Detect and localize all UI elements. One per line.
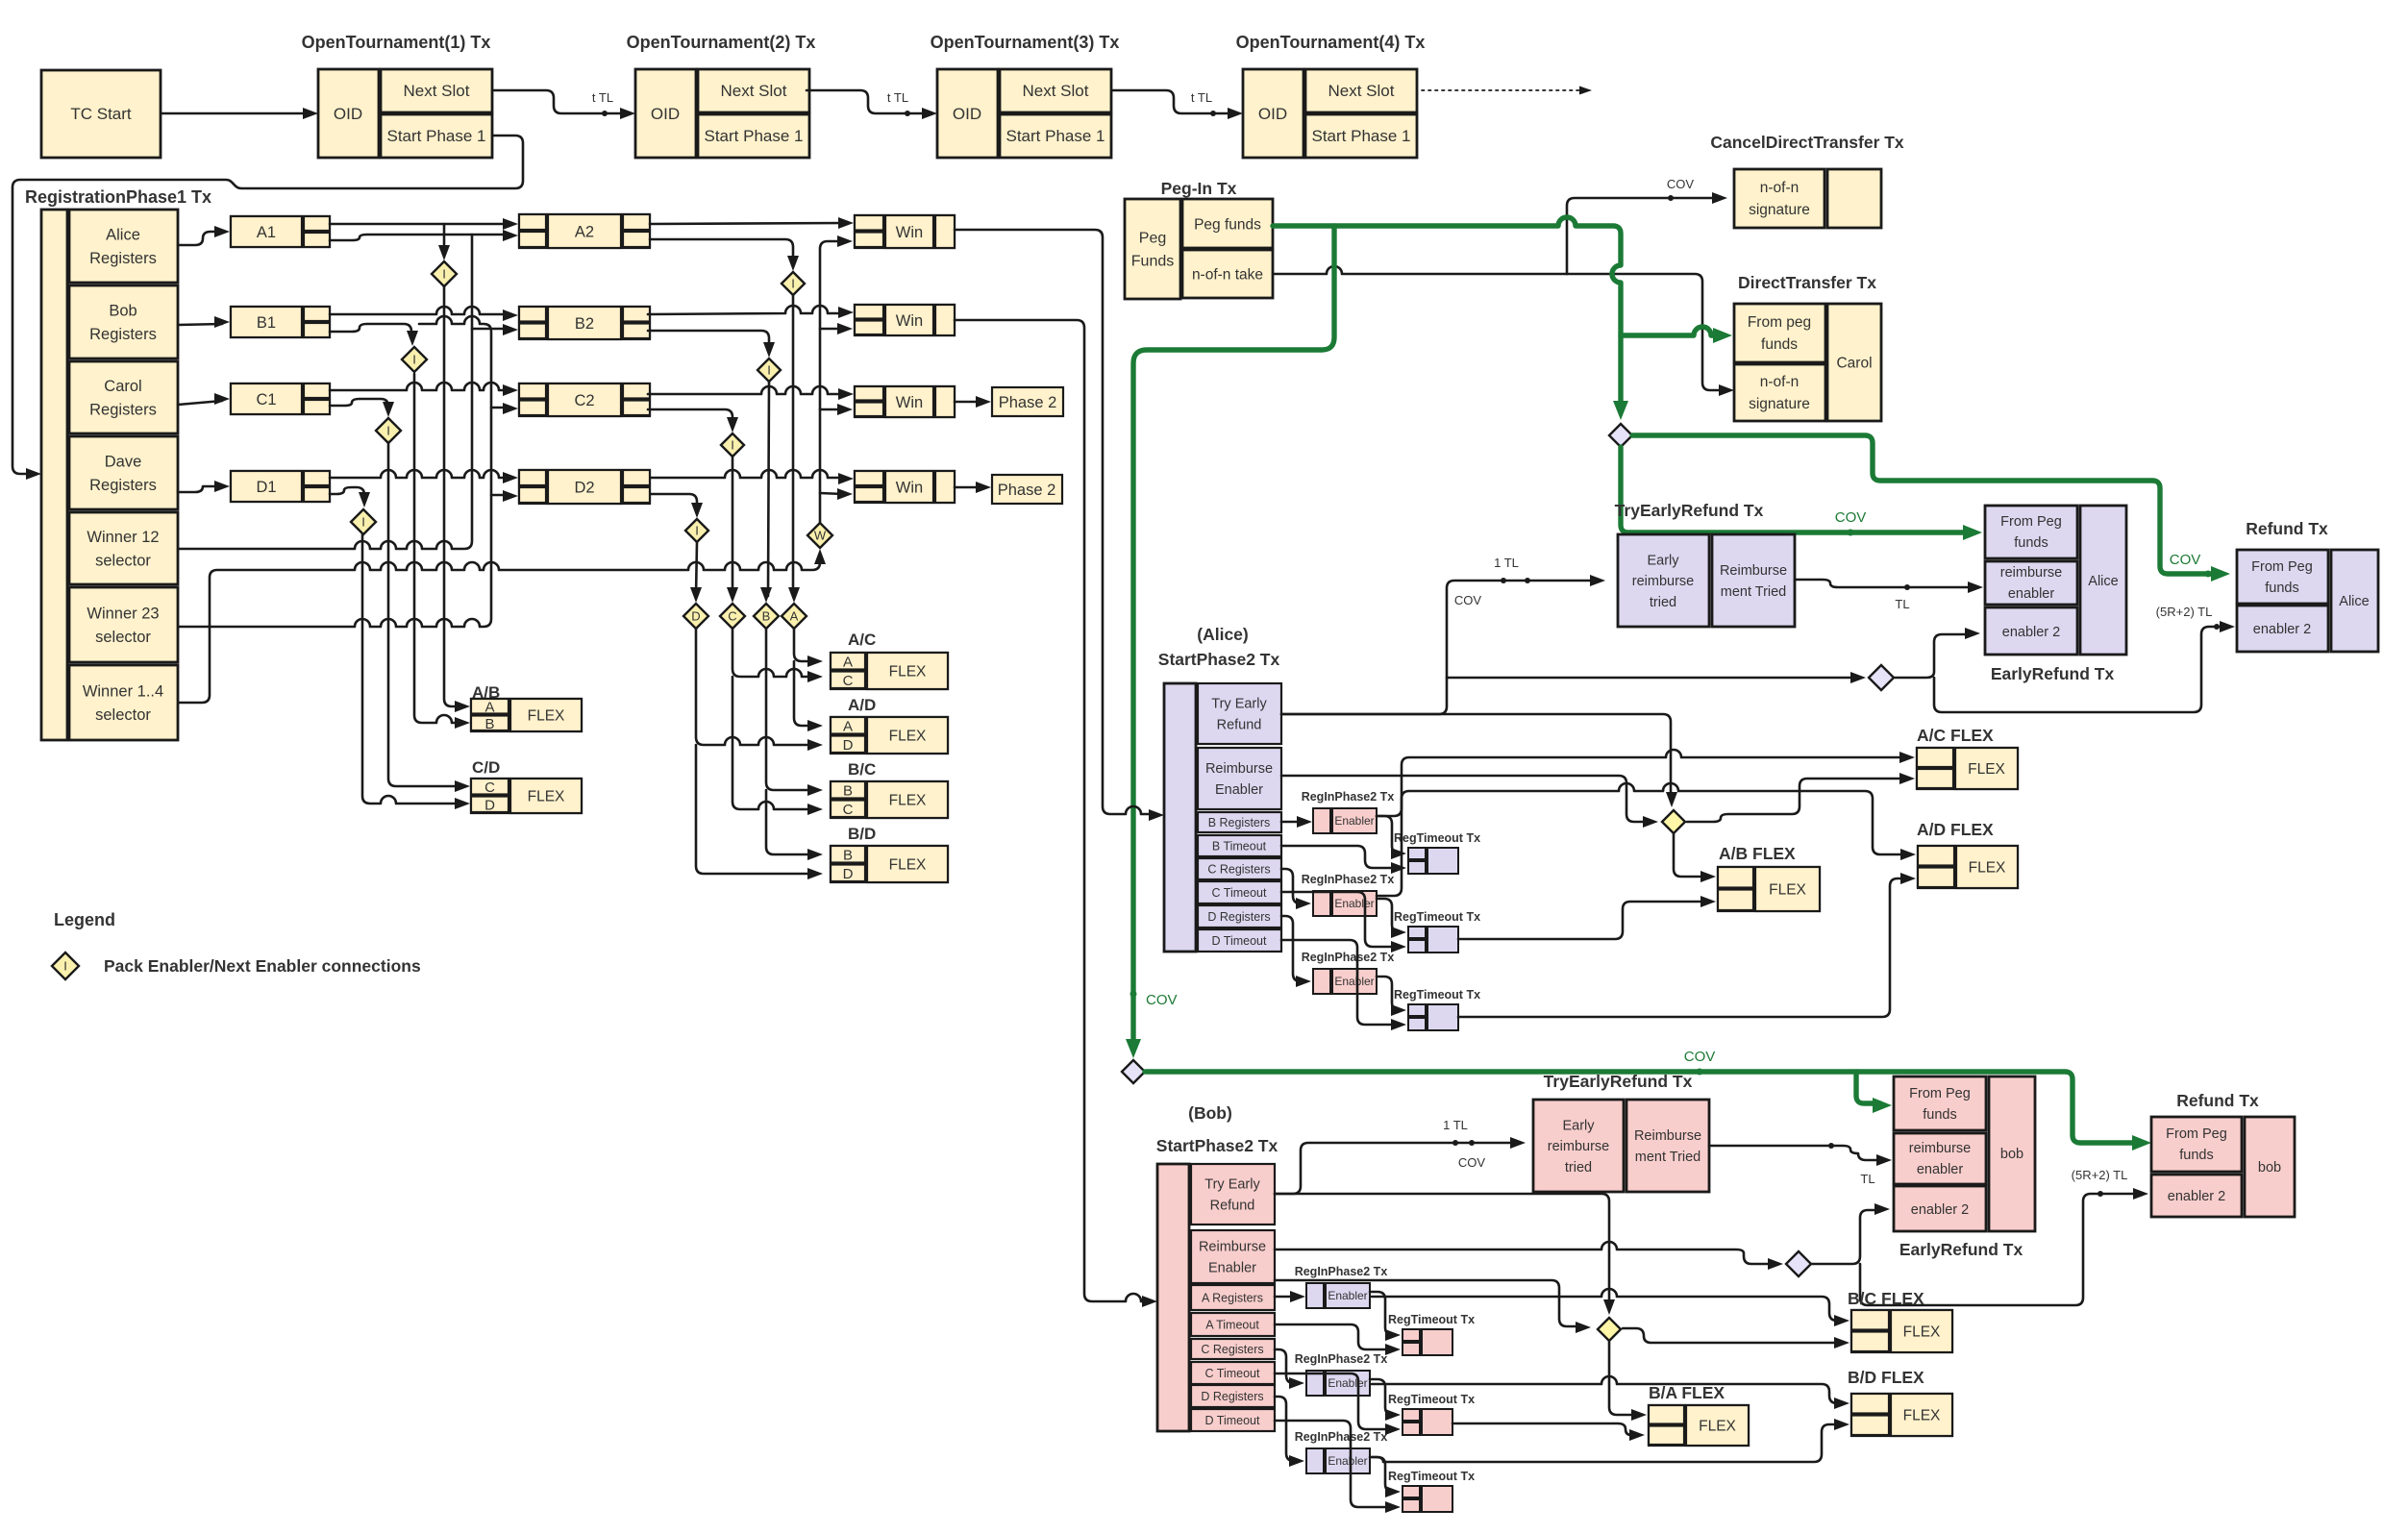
svg-text:A Timeout: A Timeout xyxy=(1205,1318,1259,1331)
box RegInPhase2 Tx xyxy=(1306,1283,1324,1308)
svg-text:bob: bob xyxy=(2258,1160,2281,1175)
svg-text:W: W xyxy=(814,529,827,543)
svg-text:Enabler: Enabler xyxy=(1328,1376,1367,1390)
box Alice StartPhase2 input column xyxy=(1164,683,1196,952)
svg-text:t TL: t TL xyxy=(887,90,908,105)
wire B2 out bottom to I_B2 xyxy=(648,331,769,350)
svg-text:RegTimeout Tx: RegTimeout Tx xyxy=(1394,988,1480,1002)
svg-text:A1: A1 xyxy=(257,224,276,241)
svg-text:Start Phase 1: Start Phase 1 xyxy=(386,127,485,145)
wire green Bob diamond to Refund Tx xyxy=(1145,1072,2140,1143)
wire Alice Try Early Refund to TryEarlyRefund Tx xyxy=(1281,581,1594,714)
box Phase 2 (D) xyxy=(992,475,1062,504)
svg-text:D: D xyxy=(843,737,854,754)
box RegTimeout Tx xyxy=(1403,1486,1420,1497)
svg-text:Winner 12: Winner 12 xyxy=(87,529,159,546)
diamond I_D2 xyxy=(685,519,708,542)
box Peg-In Peg funds output xyxy=(1182,199,1273,248)
wire RegTimeout 2 to A/B FLEX bottom xyxy=(1458,902,1706,939)
svg-text:A: A xyxy=(843,655,853,671)
wire Alice Registers to A1 xyxy=(178,232,222,245)
svg-text:funds: funds xyxy=(2265,581,2298,596)
svg-text:TL: TL xyxy=(1895,597,1909,611)
svg-text:signature: signature xyxy=(1749,396,1810,412)
svg-text:Win: Win xyxy=(896,224,923,241)
box C/D FLEX xyxy=(471,779,582,813)
box Bob Refund From Peg funds xyxy=(2151,1117,2242,1172)
wire I_A2 to diamond A xyxy=(792,295,795,596)
svg-text:OID: OID xyxy=(651,105,680,123)
box Alice StartPhase2 B Registers xyxy=(1198,812,1281,832)
svg-text:EarlyRefund Tx: EarlyRefund Tx xyxy=(1991,664,2115,683)
svg-text:D Timeout: D Timeout xyxy=(1212,934,1267,948)
svg-text:Enabler: Enabler xyxy=(1334,975,1374,988)
wire D Timeout to RegTimeout 3 xyxy=(1281,940,1399,1025)
svg-text:n-of-n: n-of-n xyxy=(1760,374,1800,390)
svg-text:(Alice): (Alice) xyxy=(1197,625,1248,644)
wire Reimbursement Tried to reimburse enabler TL xyxy=(1795,580,1973,587)
box Phase 2 (C) xyxy=(992,387,1063,416)
box Bob StartPhase2 D Timeout xyxy=(1191,1409,1275,1431)
svg-text:tried: tried xyxy=(1565,1160,1592,1175)
box Alice EarlyRefund From Peg funds xyxy=(1985,506,2077,558)
wire Bob junction to enabler 2 and Refund xyxy=(1811,1210,1880,1264)
wire Bob Reimburse Enabler to next-enabler diamond xyxy=(1275,1242,1774,1264)
svg-text:From Peg: From Peg xyxy=(1909,1086,1971,1101)
svg-text:RegTimeout Tx: RegTimeout Tx xyxy=(1388,1393,1475,1406)
box Win 2 xyxy=(855,305,955,335)
svg-text:RegistrationPhase1 Tx: RegistrationPhase1 Tx xyxy=(25,187,211,207)
wire fork branch to B2 enabler input xyxy=(472,328,511,331)
svg-text:C: C xyxy=(843,802,854,818)
svg-text:FLEX: FLEX xyxy=(889,663,927,680)
box Alice EarlyRefund Alice xyxy=(2080,506,2126,655)
box Bob Refund enabler 2 xyxy=(2151,1175,2242,1217)
svg-text:Enabler: Enabler xyxy=(1208,1260,1256,1275)
box CancelDirectTransfer output xyxy=(1827,169,1881,228)
svg-text:(Bob): (Bob) xyxy=(1188,1103,1232,1123)
wire Win1 output down to Alice StartPhase2 xyxy=(955,230,1156,814)
box A/C FLEX xyxy=(831,653,948,689)
wire diamond A to A/C and A/D FLEX xyxy=(794,629,815,661)
svg-text:CancelDirectTransfer Tx: CancelDirectTransfer Tx xyxy=(1710,133,1904,152)
svg-text:A: A xyxy=(843,719,853,735)
svg-text:EarlyRefund Tx: EarlyRefund Tx xyxy=(1899,1240,2023,1259)
wire B1 bottom fork to C2 D2 and Winner 23 selector xyxy=(179,316,491,627)
svg-text:Refund Tx: Refund Tx xyxy=(2246,519,2328,538)
box B/C FLEX (Bob) xyxy=(1851,1310,1952,1352)
wire C Registers to RegInPhase2 2 xyxy=(1275,1349,1297,1383)
diamond Alice next enabler junction xyxy=(1869,665,1894,690)
svg-text:Win: Win xyxy=(896,479,923,496)
svg-text:Registers: Registers xyxy=(89,326,157,343)
svg-text:Peg: Peg xyxy=(1139,231,1166,247)
wire A Timeout to RegTimeout 1 xyxy=(1275,1324,1393,1349)
svg-text:StartPhase2 Tx: StartPhase2 Tx xyxy=(1156,1136,1278,1155)
wire A1 top branch to I_A xyxy=(443,224,446,254)
svg-text:Start Phase 1: Start Phase 1 xyxy=(1311,127,1410,145)
svg-text:Reimburse: Reimburse xyxy=(1634,1128,1701,1144)
svg-text:RegTimeout Tx: RegTimeout Tx xyxy=(1394,831,1480,845)
box Alice EarlyRefund enabler 2 xyxy=(1985,607,2077,655)
box Alice StartPhase2 Reimburse Enabler xyxy=(1198,748,1281,809)
svg-text:TryEarlyRefund Tx: TryEarlyRefund Tx xyxy=(1615,501,1764,520)
wire A2 out bottom to I_A2 xyxy=(650,239,793,263)
svg-text:FLEX: FLEX xyxy=(889,856,927,873)
box RegistrationPhase1 row Winner 23 selector xyxy=(69,587,178,662)
box B/D FLEX (Bob) xyxy=(1851,1394,1952,1436)
svg-text:n-of-n: n-of-n xyxy=(1760,180,1800,196)
svg-text:A/C: A/C xyxy=(848,631,876,649)
svg-text:Next Slot: Next Slot xyxy=(404,82,470,100)
wire Alice pack diamond to A/B FLEX top xyxy=(1674,834,1706,877)
box D1 xyxy=(231,471,330,502)
wire Enabler 1 to RegTimeout 1 xyxy=(1370,1292,1393,1335)
svg-text:B Registers: B Registers xyxy=(1208,816,1271,829)
wire dotted continuation after OpenTournament(4) xyxy=(1422,89,1582,91)
box Win 3 xyxy=(855,386,955,417)
wire A1 bottom fork to B2 and Winner 12 selector xyxy=(179,235,472,549)
box Peg-In Peg Funds xyxy=(1125,199,1180,299)
svg-text:B/C FLEX: B/C FLEX xyxy=(1848,1289,1924,1308)
svg-text:Enabler: Enabler xyxy=(1334,897,1374,910)
svg-text:Registers: Registers xyxy=(89,402,157,419)
svg-text:Enabler: Enabler xyxy=(1328,1289,1367,1302)
svg-text:I: I xyxy=(767,363,771,378)
box Bob StartPhase2 A Registers xyxy=(1191,1285,1275,1310)
svg-text:Carol: Carol xyxy=(104,378,141,395)
wire D Timeout to RegTimeout 3 xyxy=(1275,1421,1393,1507)
svg-text:COV: COV xyxy=(1667,177,1695,191)
wire B Timeout to RegTimeout 1 xyxy=(1281,846,1399,868)
box RegistrationPhase1 input column xyxy=(41,210,67,740)
svg-text:1 TL: 1 TL xyxy=(1494,556,1519,570)
svg-text:D: D xyxy=(484,798,495,814)
wire I_B to A/B FLEX B xyxy=(414,374,463,723)
wire green Peg funds main covenant path xyxy=(1273,217,1621,408)
box Peg-In n-of-n take output xyxy=(1182,250,1273,298)
box Alice StartPhase2 D Timeout xyxy=(1198,929,1281,952)
svg-text:B: B xyxy=(843,848,853,864)
wire long to B/D FLEX D xyxy=(1372,1424,1841,1462)
svg-text:RegInPhase2 Tx: RegInPhase2 Tx xyxy=(1295,1352,1388,1366)
svg-text:t TL: t TL xyxy=(1191,90,1212,105)
wire C Timeout to RegTimeout 2 xyxy=(1281,892,1399,947)
svg-text:RegTimeout Tx: RegTimeout Tx xyxy=(1388,1313,1475,1326)
svg-text:C Registers: C Registers xyxy=(1201,1343,1263,1356)
svg-text:C2: C2 xyxy=(574,392,594,409)
diamond I_C xyxy=(376,418,401,443)
svg-text:Carol: Carol xyxy=(1836,355,1872,371)
svg-text:Enabler: Enabler xyxy=(1215,782,1263,798)
svg-text:B: B xyxy=(762,609,771,624)
box RegistrationPhase1 row Alice Registers xyxy=(69,210,178,283)
box Alice StartPhase2 C Registers xyxy=(1198,858,1281,879)
svg-text:reimburse: reimburse xyxy=(2000,565,2062,581)
svg-text:A/D: A/D xyxy=(848,696,876,714)
box OpenTournament(3) Next Slot xyxy=(1000,69,1111,112)
svg-text:ment Tried: ment Tried xyxy=(1635,1150,1701,1165)
svg-text:C Timeout: C Timeout xyxy=(1205,1367,1260,1380)
svg-text:RegInPhase2 Tx: RegInPhase2 Tx xyxy=(1302,951,1395,964)
svg-text:Enabler: Enabler xyxy=(1328,1454,1367,1468)
box Alice TryEarlyRefund Early reimburse tried xyxy=(1618,534,1709,627)
svg-text:I: I xyxy=(731,438,734,453)
svg-text:Enabler: Enabler xyxy=(1334,814,1374,828)
wire Try Early Refund to Alice pack diamond xyxy=(1281,714,1671,800)
svg-text:signature: signature xyxy=(1749,202,1810,218)
box B/D FLEX xyxy=(831,846,948,882)
svg-text:C: C xyxy=(843,673,854,689)
box A1 xyxy=(231,216,330,247)
wire Carol Registers to C1 xyxy=(178,401,222,405)
box Alice StartPhase2 C Timeout xyxy=(1198,881,1281,903)
box Alice StartPhase2 B Timeout xyxy=(1198,835,1281,856)
svg-text:C Registers: C Registers xyxy=(1207,862,1270,876)
wire long to A/D FLEX A xyxy=(1377,783,1908,896)
svg-text:Next Slot: Next Slot xyxy=(1023,82,1089,100)
box B/A FLEX (Bob) xyxy=(1649,1405,1749,1446)
box RegInPhase2 Tx xyxy=(1306,1448,1324,1473)
svg-text:selector: selector xyxy=(95,706,151,724)
svg-text:FLEX: FLEX xyxy=(889,728,927,744)
svg-text:FLEX: FLEX xyxy=(1769,881,1806,898)
svg-text:Bob: Bob xyxy=(109,302,137,319)
svg-text:From peg: From peg xyxy=(1748,314,1811,331)
svg-text:RegInPhase2 Tx: RegInPhase2 Tx xyxy=(1295,1265,1388,1278)
svg-text:n-of-n take: n-of-n take xyxy=(1192,266,1263,283)
svg-text:C: C xyxy=(728,609,736,624)
svg-text:Refund Tx: Refund Tx xyxy=(2176,1091,2259,1110)
box Alice StartPhase2 D Registers xyxy=(1198,905,1281,928)
wire Bob Reimbursement Tried to reimburse enabler TL xyxy=(1709,1146,1882,1160)
svg-text:Reimburse: Reimburse xyxy=(1199,1240,1266,1255)
wire I_C2 to diamond C xyxy=(732,457,734,596)
svg-text:reimburse: reimburse xyxy=(1632,574,1694,589)
wire diamond D to A/D and B/D FLEX xyxy=(696,629,815,745)
svg-text:Next Slot: Next Slot xyxy=(721,82,787,100)
svg-text:Peg funds: Peg funds xyxy=(1194,216,1261,233)
box OpenTournament(3) OID xyxy=(937,69,998,158)
svg-text:I: I xyxy=(63,959,67,974)
svg-text:OpenTournament(2) Tx: OpenTournament(2) Tx xyxy=(627,33,816,52)
box Bob StartPhase2 input column xyxy=(1157,1164,1189,1431)
box Bob StartPhase2 Reimburse Enabler xyxy=(1191,1230,1275,1283)
svg-text:COV: COV xyxy=(1835,509,1867,526)
box D2 xyxy=(519,470,650,504)
wire green Alice diamond to EarlyRefund Tx xyxy=(1621,447,1971,532)
svg-text:From Peg: From Peg xyxy=(2166,1126,2227,1142)
svg-text:enabler: enabler xyxy=(2008,586,2055,602)
wire Win4 to Phase 2 xyxy=(955,486,983,489)
svg-text:selector: selector xyxy=(95,629,151,646)
box Bob EarlyRefund From Peg funds xyxy=(1894,1076,1986,1130)
wire long to A/D FLEX D xyxy=(1458,878,1908,1017)
box A2 xyxy=(519,214,650,248)
svg-text:Reimburse: Reimburse xyxy=(1720,563,1787,579)
svg-text:B1: B1 xyxy=(257,314,276,332)
box Bob EarlyRefund bob xyxy=(1989,1076,2035,1231)
box RegInPhase2 Tx xyxy=(1313,808,1330,833)
box Bob TryEarlyRefund Reimbursement Tried xyxy=(1626,1100,1709,1192)
diamond green junction (Bob) xyxy=(1122,1060,1145,1083)
wire D1 bottom to I_D xyxy=(330,487,364,500)
wire D2 out top to Win4 xyxy=(651,470,847,478)
wire B Registers to RegInPhase2 xyxy=(1281,821,1304,824)
box Bob StartPhase2 D Registers xyxy=(1191,1385,1275,1407)
svg-text:RegTimeout Tx: RegTimeout Tx xyxy=(1388,1470,1475,1483)
svg-text:COV: COV xyxy=(1684,1049,1716,1065)
wire t TL link xyxy=(1112,90,1236,113)
svg-text:1 TL: 1 TL xyxy=(1443,1118,1468,1132)
svg-text:FLEX: FLEX xyxy=(889,792,927,808)
svg-text:COV: COV xyxy=(2170,552,2201,568)
svg-text:I: I xyxy=(361,515,365,530)
svg-text:I: I xyxy=(695,524,699,538)
box Bob EarlyRefund enabler 2 xyxy=(1894,1186,1986,1231)
diamond I_C2 xyxy=(721,433,744,457)
box RegistrationPhase1 row Bob Registers xyxy=(69,285,178,359)
box OpenTournament(1) Start Phase 1 xyxy=(381,114,492,158)
box RegTimeout Tx xyxy=(1408,848,1426,859)
box RegTimeout Tx xyxy=(1408,1004,1426,1016)
svg-text:TryEarlyRefund Tx: TryEarlyRefund Tx xyxy=(1544,1072,1693,1091)
wire branch to CancelDirectTransfer with COV xyxy=(1567,198,1720,274)
box OpenTournament(4) OID xyxy=(1243,69,1303,158)
svg-text:A: A xyxy=(484,700,494,716)
svg-text:B/C: B/C xyxy=(848,760,876,779)
box OpenTournament(2) Next Slot xyxy=(698,69,809,112)
box RegistrationPhase1 row Carol Registers xyxy=(69,361,178,433)
svg-text:ment Tried: ment Tried xyxy=(1721,584,1787,600)
box A/C FLEX (Alice) xyxy=(1917,748,2018,789)
diamond legend pack enabler xyxy=(52,953,79,979)
svg-text:FLEX: FLEX xyxy=(1969,859,2006,876)
box CancelDirectTransfer n-of-n signature xyxy=(1734,169,1825,228)
box B/C FLEX xyxy=(831,781,948,818)
svg-text:Try Early: Try Early xyxy=(1204,1177,1260,1193)
wire A2 out top to Win1 xyxy=(650,223,847,224)
box RegInPhase2 Tx xyxy=(1313,969,1330,994)
wire Winner 1..4 selector to W diamond xyxy=(179,556,820,703)
svg-text:funds: funds xyxy=(1923,1107,1956,1123)
wire B1 bottom to I_B xyxy=(330,324,411,338)
svg-text:I: I xyxy=(442,267,446,282)
wire Enabler 3 to RegTimeout 3 xyxy=(1377,977,1400,1010)
svg-text:StartPhase2 Tx: StartPhase2 Tx xyxy=(1158,650,1280,669)
svg-text:OpenTournament(1) Tx: OpenTournament(1) Tx xyxy=(302,33,491,52)
svg-text:B2: B2 xyxy=(575,315,594,333)
box C1 xyxy=(231,383,330,414)
box C2 xyxy=(519,383,650,416)
wire B1 top to B2 xyxy=(330,307,511,314)
wire TC Start to OpenTournament(1) xyxy=(161,112,311,115)
wire green branch to DirectTransfer From peg funds xyxy=(1621,327,1721,335)
svg-text:TC Start: TC Start xyxy=(70,105,132,123)
wire A1 top to A2 xyxy=(330,223,511,226)
wire I_D2 to diamond D xyxy=(696,542,697,596)
svg-text:enabler: enabler xyxy=(1917,1162,1964,1177)
svg-text:enabler 2: enabler 2 xyxy=(2168,1189,2225,1204)
diamond Bob B/A pack enabler xyxy=(1598,1318,1621,1341)
wire long to B/D FLEX B xyxy=(1372,1376,1841,1403)
wire Bob Registers to B1 xyxy=(178,324,222,325)
svg-text:OpenTournament(3) Tx: OpenTournament(3) Tx xyxy=(931,33,1120,52)
wire fork branch to D2 enabler input xyxy=(491,494,511,497)
diamond W xyxy=(807,523,832,548)
box Bob StartPhase2 A Timeout xyxy=(1191,1313,1275,1336)
svg-text:OID: OID xyxy=(334,105,362,123)
svg-text:COV: COV xyxy=(1454,593,1482,607)
svg-text:A/D FLEX: A/D FLEX xyxy=(1917,820,1994,839)
svg-text:B: B xyxy=(484,716,494,732)
wire Dave Registers to D1 xyxy=(178,486,222,492)
wire Enabler 1 long to A/C FLEX A xyxy=(1377,750,1905,816)
svg-text:OID: OID xyxy=(1258,105,1287,123)
svg-text:Win: Win xyxy=(896,394,923,411)
svg-text:Registers: Registers xyxy=(89,477,157,494)
svg-text:Early: Early xyxy=(1562,1118,1595,1133)
wire D2 out bottom to I_D2 xyxy=(651,494,697,510)
box B1 xyxy=(231,307,330,337)
svg-text:I: I xyxy=(386,424,390,438)
svg-text:RegTimeout Tx: RegTimeout Tx xyxy=(1394,910,1480,924)
wire A Registers to RegInPhase2 xyxy=(1275,1296,1298,1299)
svg-text:D: D xyxy=(691,609,700,624)
box OpenTournament(2) Start Phase 1 xyxy=(698,114,809,158)
box OpenTournament(2) OID xyxy=(635,69,696,158)
box A/D FLEX xyxy=(831,717,948,754)
svg-text:Legend: Legend xyxy=(54,910,115,929)
svg-text:funds: funds xyxy=(1761,336,1798,353)
box OpenTournament(1) OID xyxy=(318,69,379,158)
svg-text:D2: D2 xyxy=(574,479,594,496)
svg-text:RegInPhase2 Tx: RegInPhase2 Tx xyxy=(1295,1430,1388,1444)
box A/B FLEX (Alice) xyxy=(1718,867,1820,911)
svg-text:t TL: t TL xyxy=(592,90,613,105)
wire Start Phase 1 to RegistrationPhase1 xyxy=(12,136,523,474)
svg-text:Peg-In Tx: Peg-In Tx xyxy=(1161,179,1237,198)
svg-text:(5R+2) TL: (5R+2) TL xyxy=(2072,1168,2128,1182)
svg-text:(5R+2) TL: (5R+2) TL xyxy=(2156,605,2213,619)
svg-text:Next Slot: Next Slot xyxy=(1328,82,1395,100)
svg-text:TL: TL xyxy=(1860,1172,1874,1186)
wire I_A to A/B FLEX A xyxy=(444,286,463,706)
svg-text:bob: bob xyxy=(2000,1147,2023,1162)
svg-text:FLEX: FLEX xyxy=(1903,1407,1941,1423)
diamond I_B2 xyxy=(757,359,781,382)
svg-text:COV: COV xyxy=(1146,992,1178,1008)
wire t TL link xyxy=(807,90,931,113)
box RegTimeout Tx xyxy=(1408,927,1426,938)
diamond I_B xyxy=(402,347,427,372)
svg-text:Reimburse: Reimburse xyxy=(1205,761,1273,777)
svg-text:enabler 2: enabler 2 xyxy=(2253,622,2311,637)
box Bob EarlyRefund reimburse enabler xyxy=(1894,1133,1986,1184)
diamond Bob next enabler junction xyxy=(1786,1251,1811,1276)
wire I_B2 to diamond B xyxy=(768,382,769,596)
wire Try Early Refund to Bob pack diamond xyxy=(1275,1194,1609,1307)
wire Enabler 2 to RegTimeout 2 xyxy=(1377,899,1400,932)
wire I_C to C/D FLEX C xyxy=(388,442,463,786)
box Bob TryEarlyRefund Early reimburse tried xyxy=(1533,1100,1624,1192)
wire Enabler 1 to RegTimeout 1 xyxy=(1377,816,1400,854)
wire C1 bottom to I_C xyxy=(330,399,388,409)
svg-text:B/D FLEX: B/D FLEX xyxy=(1848,1368,1924,1387)
box Alice Refund enabler 2 xyxy=(2237,606,2328,652)
diamond green junction (Alice) xyxy=(1609,424,1632,447)
box Bob Refund bob xyxy=(2245,1117,2295,1217)
